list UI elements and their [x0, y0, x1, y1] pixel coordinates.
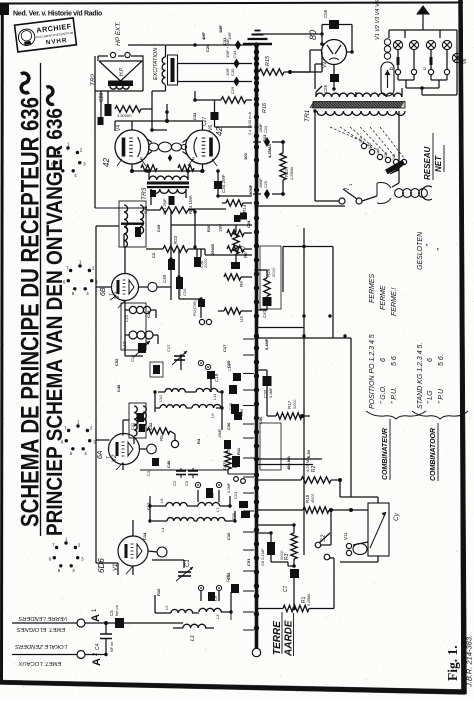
tube V1 6D6 [97, 536, 167, 573]
6B7 top wire [124, 234, 125, 274]
lamp bracket [389, 30, 457, 52]
svg-text:C31: C31 [146, 468, 151, 476]
svg-text:u: u [422, 67, 428, 70]
C56 capacitor [322, 9, 352, 40]
svg-text:TR1: TR1 [304, 109, 311, 122]
svg-text:LOKALE ZENDERS: LOKALE ZENDERS [15, 643, 67, 649]
K14 capacitor [234, 215, 241, 222]
svg-text:245: 245 [392, 154, 396, 160]
svg-text:C36: C36 [226, 422, 231, 430]
C9 capacitor [206, 488, 215, 498]
svg-text:RESEAU: RESEAU [423, 146, 432, 180]
svg-text:6,3V: 6,3V [306, 449, 311, 458]
speaker horn [99, 61, 142, 81]
svg-text:20000: 20000 [204, 258, 208, 268]
V11 jack [343, 532, 368, 556]
border frame right [459, 0, 467, 694]
svg-text:5 6: 5 6 [391, 356, 398, 366]
tube socket diagram 2 [63, 260, 98, 296]
svg-text:C25: C25 [253, 202, 258, 210]
svg-text:C7: C7 [283, 585, 289, 592]
svg-text:L11: L11 [212, 393, 217, 400]
speaker terminal 2 [125, 52, 130, 57]
mains cord [377, 183, 432, 204]
title AC symbol 2 [46, 87, 54, 105]
title line 1 [17, 97, 45, 527]
C28b capacitor [98, 117, 104, 125]
svg-text:C17: C17 [222, 344, 227, 352]
svg-text:V3: V3 [115, 291, 121, 299]
lower coil wires [155, 591, 231, 628]
svg-text:C20: C20 [182, 288, 187, 296]
C23 electrolytic [253, 123, 285, 147]
L6 coil [159, 498, 187, 506]
svg-text:6D6: 6D6 [97, 558, 106, 573]
svg-text:4,25MA: 4,25MA [290, 166, 294, 180]
svg-text:R16: R16 [262, 102, 268, 113]
C8 capacitor [257, 533, 276, 566]
svg-text:C50: C50 [258, 416, 263, 424]
svg-text:L6: L6 [159, 498, 164, 503]
C29 electrolytic [178, 67, 253, 94]
svg-text:R4: R4 [233, 461, 239, 468]
svg-text:C2: C2 [172, 480, 177, 486]
antenna symbol [417, 6, 429, 30]
svg-text:V2: V2 [112, 454, 118, 462]
A2 wire [12, 654, 106, 656]
svg-text:C24: C24 [246, 220, 251, 228]
regulator tube [381, 39, 394, 96]
C4 capacitor [95, 623, 114, 655]
svg-text:C29: C29 [230, 86, 235, 94]
R1 resistor [257, 593, 335, 612]
svg-text:” LG: ” LG [427, 390, 434, 404]
C7 capacitor [283, 569, 299, 609]
archive stamp NVHR [15, 18, 77, 52]
svg-text:H.P.: H.P. [119, 67, 125, 76]
svg-text:FERME.!: FERME.! [391, 288, 398, 316]
svg-text:” P.U.: ” P.U. [391, 387, 398, 404]
6B7 lower wires [96, 287, 158, 356]
svg-text:C2: C2 [151, 252, 156, 258]
L8 coil [160, 405, 186, 408]
wire mid rect [283, 247, 333, 338]
lamp contacts [389, 50, 450, 75]
C18 capacitor [207, 371, 219, 382]
T2 winding a [124, 205, 144, 234]
svg-text:fixe cm: fixe cm [115, 605, 119, 616]
R24 resistor [160, 195, 193, 214]
TR2 label [90, 73, 97, 86]
svg-text:0,1MF: 0,1MF [269, 387, 273, 398]
C3 capacitor [184, 468, 198, 486]
svg-text:C35: C35 [226, 360, 231, 368]
svg-text:V9: V9 [322, 62, 328, 68]
tube V2 6A7 [97, 434, 156, 465]
tube socket diagram 1 [51, 142, 86, 178]
wire field right [177, 64, 179, 82]
input labels [15, 615, 68, 666]
svg-text:L4: L4 [160, 527, 165, 532]
L coil a [134, 406, 146, 426]
svg-text:C36: C36 [239, 408, 244, 416]
S2 switch [315, 533, 330, 560]
TR1 wires [315, 86, 402, 201]
bus junction dots [254, 42, 259, 630]
svg-text:C44: C44 [232, 50, 237, 58]
C39 capacitor [192, 299, 205, 316]
C34 capacitor [214, 171, 226, 196]
voltage selector [330, 127, 407, 165]
R8 resistor [218, 308, 252, 322]
svg-text:MF cm: MF cm [110, 641, 114, 652]
svg-text:0,1MF: 0,1MF [227, 482, 231, 493]
svg-text:C49: C49 [146, 310, 151, 318]
R12 resistor [218, 224, 244, 236]
svg-text:R10: R10 [156, 588, 161, 596]
R2 resistor [257, 457, 343, 483]
terre terminal [252, 648, 260, 656]
svg-text:L9: L9 [210, 413, 215, 418]
field coil wires [152, 45, 195, 91]
speaker magnet [108, 81, 133, 87]
title AC symbol 1 [21, 73, 29, 93]
C25 electrolytic [253, 178, 285, 199]
pilot lamp V9b [426, 40, 435, 49]
combinateur brace [366, 411, 426, 419]
svg-text:J.B.R. 214-383.: J.B.R. 214-383. [465, 635, 474, 688]
rectifier tube 80 [322, 40, 347, 69]
svg-text:” P.U: ” P.U [438, 388, 445, 404]
heater wires [230, 612, 232, 620]
wire B+ a [128, 44, 165, 46]
chassis ground bars [243, 31, 272, 45]
R25 box [260, 246, 281, 309]
lamp join wires [398, 52, 457, 95]
long wire top [152, 104, 167, 130]
svg-text:110: 110 [359, 137, 363, 143]
svg-text:EXCITATION: EXCITATION [153, 48, 159, 80]
C55 capacitor [323, 74, 339, 93]
svg-text:C47: C47 [222, 462, 227, 470]
R25 resistor [254, 267, 276, 296]
trimmer c [198, 585, 221, 590]
svg-text:L3: L3 [215, 614, 220, 619]
figure label [445, 645, 460, 681]
svg-text:R11: R11 [236, 447, 241, 455]
svg-text:TR2: TR2 [90, 73, 97, 86]
svg-text:V6: V6 [462, 58, 467, 64]
C30 electrolytic [178, 38, 253, 76]
TR1 primary [317, 111, 405, 115]
svg-text:4 50000: 4 50000 [117, 113, 132, 118]
heater stub lines [257, 459, 323, 465]
combinateur label [382, 419, 390, 480]
C5 capacitor [109, 605, 124, 628]
svg-text:4MF: 4MF [201, 31, 206, 40]
svg-text:5 6.: 5 6. [438, 354, 445, 366]
osc wires [155, 354, 222, 430]
svg-text:C14: C14 [142, 532, 147, 540]
svg-text:POSITION PO 1.2.3 4 5: POSITION PO 1.2.3 4 5 [369, 334, 376, 409]
svg-text:1MF: 1MF [225, 67, 230, 76]
svg-text:C32: C32 [130, 422, 135, 430]
svg-text:R23: R23 [173, 235, 178, 244]
svg-text:C16: C16 [130, 354, 135, 362]
svg-text:80: 80 [308, 30, 318, 40]
R5 resistor [147, 428, 179, 448]
rect wires [257, 25, 353, 90]
6A7 wires [96, 226, 134, 470]
svg-text:R7: R7 [241, 245, 247, 252]
svg-text:AARDE: AARDE [284, 620, 295, 657]
R6 resistor [227, 246, 248, 258]
C41 capacitor [257, 296, 272, 318]
svg-text:U3: U3 [239, 316, 244, 322]
L coil b [134, 424, 145, 436]
C37 capacitor [257, 370, 274, 398]
combinatoor row 3 [436, 248, 445, 404]
C21 capacitor [162, 196, 175, 215]
lower-right wires [271, 510, 334, 609]
lamp labels [375, 0, 381, 40]
svg-text:C18: C18 [214, 373, 219, 382]
svg-text:C48: C48 [166, 460, 171, 468]
svg-text:COMBINATEUR: COMBINATEUR [382, 428, 389, 480]
svg-text:A: A [91, 658, 103, 666]
C9b capacitor [227, 440, 240, 467]
TR1 label [304, 109, 311, 122]
C19b capacitor [228, 364, 241, 381]
svg-text:TERRE: TERRE [272, 621, 283, 655]
combinatoor label [430, 423, 438, 481]
C20 capacitor [176, 277, 187, 296]
svg-text:STAND KG 1.2.3 4 5.: STAND KG 1.2.3 4 5. [417, 343, 424, 409]
svg-text:R15: R15 [265, 55, 271, 66]
R16 resistor [195, 91, 268, 113]
border frame bottom [0, 680, 465, 695]
T2 core [121, 223, 143, 225]
R13 resistor [280, 142, 294, 194]
junction dots misc [104, 43, 292, 625]
svg-text:C56: C56 [323, 9, 328, 18]
svg-text:I: I [344, 188, 351, 190]
svg-text:R14: R14 [242, 204, 247, 213]
border frame left [0, 3, 4, 682]
grid stopper R [140, 154, 195, 172]
R4 resistor [140, 451, 257, 474]
C24 capacitor [240, 213, 247, 220]
svg-text:30000: 30000 [293, 399, 297, 409]
svg-text:R5: R5 [159, 435, 164, 441]
C42 capacitor [218, 428, 231, 449]
svg-text:0,1MF: 0,1MF [264, 338, 269, 350]
L7 coil [198, 502, 220, 512]
PU terminals [199, 319, 211, 324]
TR3 secondary [151, 189, 186, 193]
svg-text:V6: V6 [208, 125, 214, 131]
svg-text:Cy: Cy [393, 512, 400, 521]
svg-text:A: A [90, 614, 102, 622]
svg-text:HP EXT.: HP EXT. [115, 21, 122, 46]
rectifier label 80 [308, 30, 318, 40]
svg-text:S2: S2 [321, 534, 327, 542]
combinateur row 3 [391, 288, 398, 404]
C28 capacitor [99, 93, 112, 116]
output tube V4 42 [102, 125, 152, 167]
combinatoor brace [412, 411, 468, 419]
TR3 primary [149, 176, 188, 180]
svg-text:GESLOTEN: GESLOTEN [417, 231, 424, 270]
svg-text:45000: 45000 [311, 493, 315, 503]
svg-text:R13: R13 [284, 169, 289, 177]
title line 2 [42, 108, 67, 536]
R9 resistor [224, 274, 252, 287]
TR3 wires [132, 171, 203, 205]
R17 box [260, 423, 281, 470]
R14 resistor [226, 200, 247, 213]
long wire left loop [96, 226, 119, 300]
pilot lamp V8 [409, 40, 418, 49]
upper coil wires [150, 490, 235, 521]
A2 terminal [77, 651, 103, 667]
TR1 secondary [316, 93, 402, 97]
svg-text:L7: L7 [215, 507, 220, 512]
L3 coil [199, 608, 221, 619]
L11 coil [196, 388, 218, 400]
C16 padder [130, 341, 150, 362]
HP EXT label [115, 21, 122, 46]
field coil [162, 55, 177, 85]
C47 box [150, 362, 163, 377]
svg-text:30000: 30000 [280, 550, 284, 560]
svg-text:10MF: 10MF [259, 123, 263, 133]
C6 capacitor [208, 592, 218, 601]
R3 resistor [257, 525, 298, 566]
wire vert x304 [303, 228, 305, 555]
svg-text:C31: C31 [222, 37, 227, 45]
combinateur row 1 [369, 274, 376, 410]
misc junction dots [104, 32, 353, 656]
Cy condensateur box [368, 503, 400, 556]
R24 wires [146, 209, 195, 211]
speaker frame wire [98, 56, 143, 61]
svg-text:V1 V2 V3 V4 V5: V1 V2 V3 V4 V5 [375, 0, 381, 40]
C13b capacitor [229, 385, 237, 394]
svg-text:C15: C15 [226, 572, 231, 580]
misc value labels [114, 24, 311, 596]
misc rect a [231, 262, 240, 269]
terre aarde label [272, 612, 295, 657]
svg-text:220: 220 [384, 152, 388, 158]
svg-text:C52: C52 [114, 358, 119, 366]
svg-text:1MF: 1MF [218, 24, 223, 33]
C13 capacitor [233, 491, 250, 518]
coupling envelope [149, 142, 187, 152]
svg-text:C3: C3 [184, 480, 189, 486]
switch I1 [339, 183, 362, 204]
C45b capacitor [227, 477, 245, 493]
svg-text:C19: C19 [156, 224, 161, 232]
svg-text:6B: 6B [100, 287, 107, 296]
speaker voice coil [110, 86, 129, 89]
svg-text:6: 6 [380, 358, 387, 362]
L1 coil [183, 624, 206, 641]
tube42 top wires [115, 112, 205, 173]
svg-text:L10: L10 [158, 395, 163, 402]
svg-text:C32: C32 [148, 422, 153, 430]
svg-text:R9: R9 [239, 281, 244, 287]
corner mark [0, 4, 9, 15]
svg-text:C11: C11 [231, 512, 236, 520]
svg-text:42: 42 [102, 158, 111, 167]
wire mid 3 [254, 336, 351, 497]
C2 capacitor [172, 468, 186, 486]
svg-text:C8 0,1MF: C8 0,1MF [260, 548, 265, 566]
A1 terminal [77, 608, 102, 627]
speaker wires [95, 56, 152, 208]
svg-text:R24 1MA: R24 1MA [188, 195, 193, 214]
C36 capacitor [231, 404, 244, 416]
L5 coil [197, 518, 225, 522]
wire mid 2 [257, 327, 305, 329]
svg-text:40MF: 40MF [259, 178, 263, 188]
svg-text:6: 6 [427, 358, 434, 362]
output tube V6 42 [183, 125, 225, 164]
svg-text:R17: R17 [287, 400, 292, 409]
svg-text:100: 100 [243, 153, 248, 160]
svg-text:4,25 MA: 4,25 MA [305, 457, 310, 472]
doc number [465, 635, 474, 688]
svg-text:40MF: 40MF [248, 184, 253, 195]
L4 coil [160, 518, 194, 532]
bus label 2x1100 [247, 112, 252, 135]
C38 capacitor [194, 257, 208, 268]
R23 wires [146, 248, 205, 250]
svg-text:C46: C46 [116, 384, 121, 392]
svg-text:V4: V4 [116, 125, 122, 131]
combinatoor row 1 [417, 231, 424, 409]
svg-text:FERMES: FERMES [369, 274, 376, 304]
6B7 mesh wires [158, 210, 253, 318]
L12 coil [122, 331, 153, 349]
wires col42 [188, 196, 252, 249]
svg-text:30000: 30000 [272, 267, 276, 277]
trimmer b [195, 482, 221, 487]
6A7 shield box [121, 303, 146, 350]
svg-text:C51: C51 [246, 558, 251, 566]
svg-text:R2: R2 [311, 465, 317, 472]
svg-text:488 MA: 488 MA [286, 456, 291, 470]
reseau net label [423, 133, 444, 180]
svg-text:COMBINATOOR: COMBINATOOR [430, 428, 437, 481]
T2 winding b [124, 227, 141, 247]
svg-text:EMET. ELOIGNES: EMET. ELOIGNES [17, 626, 66, 632]
svg-text:6A: 6A [97, 450, 104, 459]
ground bus wire [255, 44, 259, 650]
L2 coil [164, 605, 193, 613]
C1 variable [176, 559, 193, 581]
svg-text:C16: C16 [156, 364, 161, 372]
svg-text:Fig. 1.: Fig. 1. [445, 645, 460, 681]
svg-text:C25: C25 [264, 181, 268, 188]
wire cy [340, 480, 378, 562]
R22 resistor [115, 106, 141, 118]
L13 coil [124, 306, 151, 322]
tube V3 6B7 [100, 274, 157, 301]
svg-text:FERME: FERME [380, 285, 387, 310]
svg-text:R13: R13 [262, 134, 267, 142]
